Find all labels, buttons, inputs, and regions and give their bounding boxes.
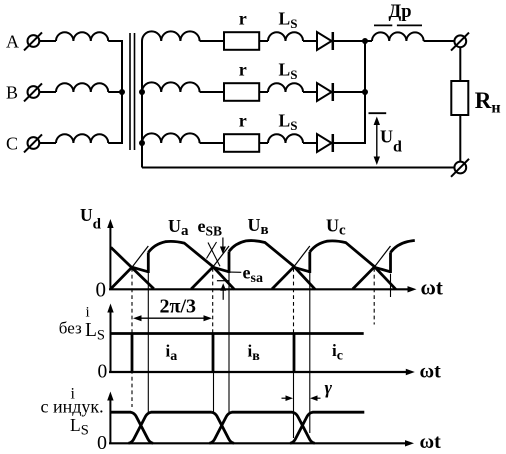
thin rising emf segment commutation 4	[374, 246, 390, 267]
inductor Ls (phase c)	[268, 134, 303, 143]
junction dot cathode bus node A	[362, 38, 368, 44]
crossover 1 rising curve	[129, 412, 152, 443]
wire primary C to left bus	[108, 142, 123, 144]
output terminal minus	[451, 159, 469, 177]
secondary winding b	[142, 82, 200, 92]
dimension arrow 2pi/3	[133, 315, 212, 321]
svg-text:Uc: Uc	[326, 215, 346, 238]
bottom return rail	[142, 167, 454, 169]
pulse edge 3	[293, 334, 296, 373]
wire A terminal to primary coil	[39, 40, 56, 42]
measurement bar under notch 2	[217, 280, 229, 282]
primary winding B	[56, 83, 108, 92]
Ud hump phase c	[310, 241, 396, 289]
svg-text:2π/3: 2π/3	[160, 296, 197, 318]
commutation notch 2	[213, 267, 229, 272]
gamma right arrow	[310, 395, 321, 401]
svg-text:А: А	[6, 32, 19, 52]
svg-text:LS: LS	[279, 110, 298, 133]
svg-text:В: В	[6, 83, 18, 103]
wire diode b to cathode bus	[333, 91, 366, 93]
svg-text:без: без	[59, 319, 82, 338]
commutation notch 1	[132, 267, 148, 272]
svg-text:ωt: ωt	[420, 431, 442, 453]
wire resistor a to Ls	[259, 40, 268, 42]
svg-text:0: 0	[96, 278, 107, 302]
commutation jump 4	[389, 252, 392, 273]
crossover 3 falling curve	[292, 412, 314, 443]
thin reference line at commutation end 1	[147, 253, 149, 412]
wire primary A to left bus	[108, 40, 123, 42]
inductor Ls (phase a)	[268, 32, 303, 41]
phase a2 rising segment	[353, 267, 375, 289]
resistor r (phase a)	[224, 32, 259, 50]
svg-text:ic: ic	[332, 341, 343, 364]
cathode bus	[364, 41, 366, 143]
wire diode a to cathode bus	[333, 40, 366, 42]
plot2 y-axis	[107, 304, 113, 373]
wire load to bottom terminal	[459, 115, 461, 162]
junction dot secondary bus node c	[139, 140, 145, 146]
diode VD2 (phase b)	[317, 83, 333, 101]
phase b rising segment	[191, 267, 213, 289]
current pulse top line	[111, 332, 364, 335]
svg-text:LS: LS	[279, 8, 298, 31]
svg-text:0: 0	[98, 361, 108, 382]
Ud hump phase b	[229, 241, 315, 290]
pulse edge 2	[212, 334, 215, 373]
commutation jump 2	[228, 251, 231, 273]
commutation jump 1	[147, 252, 150, 273]
crossover 1 falling curve	[131, 412, 153, 443]
primary winding A	[56, 32, 108, 41]
primary bus	[121, 41, 123, 143]
choke Dr	[372, 32, 424, 41]
terminal B	[24, 83, 42, 101]
commutation notch 4	[374, 267, 390, 272]
plot3 x-axis	[109, 440, 414, 446]
svg-text:Ud: Ud	[80, 205, 102, 233]
svg-text:Др: Др	[389, 2, 412, 22]
commutation notch 3	[294, 267, 310, 272]
thin reference line at commutation end 2	[228, 252, 230, 412]
thin rising emf segment commutation 2	[213, 246, 229, 267]
crossover 2 rising curve	[209, 412, 232, 443]
diode VD3 (phase c)	[317, 134, 333, 152]
thin reference line at commutation start 2 lower part	[213, 372, 215, 412]
secondary winding c	[142, 133, 200, 143]
gamma left arrow	[282, 395, 294, 401]
Ud waveform descending tail from y-axis	[111, 247, 154, 288]
thin rising emf segment commutation 3	[294, 246, 310, 267]
wire C terminal to primary coil	[39, 142, 56, 144]
svg-text:γ: γ	[325, 378, 333, 398]
svg-text:iв: iв	[248, 342, 261, 365]
underline of Dr label	[374, 24, 422, 26]
wire resistor c to Ls	[259, 142, 268, 144]
leader line from esa to notch	[230, 271, 242, 273]
crossover 3 rising curve	[290, 412, 313, 443]
down arrow marker at commutation 2	[220, 238, 226, 255]
inductor Ls (phase b)	[268, 83, 303, 92]
junction dot secondary bus node b	[139, 89, 145, 95]
wire diode c to cathode bus	[333, 142, 366, 144]
svg-text:С: С	[6, 134, 18, 154]
leader line from eSB to rising emf	[208, 243, 220, 267]
Ud partial hump right end	[391, 241, 415, 253]
svg-text:LS: LS	[85, 320, 105, 344]
junction dot primary bus node B	[119, 89, 125, 95]
plot1 y-axis	[107, 219, 113, 289]
wire Ls c to diode	[303, 142, 317, 144]
dashed reference line at commutation start 1	[131, 268, 133, 407]
terminal C	[24, 134, 42, 152]
commutation jump 3	[308, 252, 311, 273]
smoothed current top segment 2	[232, 411, 293, 414]
Ud measurement arrow	[374, 117, 380, 166]
smoothed current top segment 1	[151, 411, 212, 414]
thin rising emf segment commutation 1	[132, 246, 148, 267]
svg-text:i: i	[86, 305, 90, 321]
phase a rising segment	[111, 267, 132, 289]
junction dot cathode bus node B	[362, 89, 368, 95]
svg-text:ωt: ωt	[421, 275, 443, 299]
svg-text:ωt: ωt	[420, 360, 442, 382]
phase c rising segment	[272, 267, 294, 289]
svg-text:ia: ia	[166, 342, 178, 365]
svg-text:esa: esa	[243, 263, 263, 287]
pulse edge 1	[131, 334, 134, 373]
smoothed current top segment 3	[312, 411, 364, 414]
dashed reference line at commutation start 2	[212, 268, 214, 334]
svg-text:r: r	[239, 111, 247, 131]
terminal A	[24, 32, 42, 50]
resistor r (phase c)	[224, 134, 259, 152]
output terminal plus	[451, 33, 469, 51]
crossover 2 falling curve	[212, 412, 234, 443]
wire B terminal to primary coil	[39, 91, 56, 93]
transformer core	[130, 33, 135, 150]
svg-text:r: r	[239, 60, 247, 80]
resistor r (phase b)	[224, 83, 259, 101]
svg-text:LS: LS	[70, 415, 89, 438]
primary winding C	[56, 134, 108, 143]
thin reference line at commutation end 4	[390, 274, 392, 297]
secondary bus	[141, 41, 143, 168]
dashed reference line at commutation start 4	[373, 268, 375, 325]
svg-text:0: 0	[97, 432, 107, 454]
wire primary B to left bus	[108, 91, 123, 93]
wire secondary a to resistor	[200, 40, 224, 42]
secondary winding a	[142, 31, 200, 41]
wire secondary c to resistor	[200, 142, 224, 144]
wire Ls b to diode	[303, 91, 317, 93]
wire secondary b to resistor	[200, 91, 224, 93]
Ud hump phase a	[148, 241, 234, 289]
plot2 x-axis	[109, 369, 415, 375]
svg-text:r: r	[239, 9, 247, 29]
Ud measurement bar	[369, 112, 387, 114]
diode VD1 (phase a)	[317, 32, 333, 50]
svg-text:Rн: Rн	[475, 88, 501, 117]
wire choke to output terminal	[424, 40, 455, 42]
dashed reference line at commutation start 3	[293, 268, 295, 334]
wire bus to choke	[365, 40, 372, 42]
svg-text:eSB: eSB	[198, 216, 223, 239]
thin reference line gamma left	[293, 372, 295, 438]
load resistor Rn	[451, 81, 468, 115]
wire terminal to load	[459, 47, 461, 81]
smoothed current top segment 0	[110, 411, 131, 414]
wire Ls a to diode	[303, 40, 317, 42]
leader line crossing at commutation 2	[207, 242, 217, 259]
wire resistor b to Ls	[259, 91, 268, 93]
svg-text:Ua: Ua	[168, 216, 189, 239]
plot3 y-axis	[107, 392, 113, 444]
svg-text:Uв: Uв	[248, 215, 269, 238]
thin reference line at commutation end 3 / gamma right	[309, 252, 311, 433]
svg-text:с индук.: с индук.	[41, 396, 104, 416]
plot1 x-axis	[109, 286, 417, 292]
svg-text:LS: LS	[279, 59, 298, 82]
svg-text:Ud: Ud	[380, 127, 402, 156]
up arrow marker at commutation 2	[220, 283, 226, 300]
